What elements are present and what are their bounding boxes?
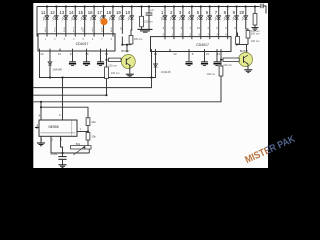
svg-text:10k: 10k xyxy=(91,135,96,139)
svg-text:10 µF: 10 µF xyxy=(50,152,57,156)
svg-text:18: 18 xyxy=(107,10,112,15)
svg-text:12: 12 xyxy=(50,10,55,15)
svg-text:11: 11 xyxy=(41,10,46,15)
svg-text:BC547: BC547 xyxy=(121,49,130,53)
svg-text:14: 14 xyxy=(40,52,44,56)
svg-text:17: 17 xyxy=(97,10,102,15)
svg-text:1N4148: 1N4148 xyxy=(161,70,171,74)
svg-text:CD4017: CD4017 xyxy=(196,43,209,47)
svg-text:BC547: BC547 xyxy=(240,49,249,53)
svg-text:100 om: 100 om xyxy=(134,37,143,41)
svg-text:11: 11 xyxy=(105,52,108,56)
svg-text:16: 16 xyxy=(88,10,93,15)
svg-text:13: 13 xyxy=(59,10,64,15)
svg-text:100 om: 100 om xyxy=(207,72,216,76)
svg-text:2k2: 2k2 xyxy=(91,120,96,124)
svg-text:14: 14 xyxy=(69,10,74,15)
svg-text:1N4148: 1N4148 xyxy=(53,68,63,72)
svg-text:13: 13 xyxy=(58,52,62,56)
svg-text:15: 15 xyxy=(85,52,89,56)
svg-text:CD4017: CD4017 xyxy=(76,42,89,46)
svg-text:50k: 50k xyxy=(76,142,81,146)
svg-text:100 om: 100 om xyxy=(144,20,153,24)
svg-text:20: 20 xyxy=(239,10,244,15)
svg-text:100 om: 100 om xyxy=(108,63,117,67)
svg-text:100 om: 100 om xyxy=(223,63,232,67)
svg-text:NE555: NE555 xyxy=(48,125,58,129)
svg-text:19: 19 xyxy=(116,10,121,15)
svg-text:11: 11 xyxy=(217,52,220,56)
svg-text:15: 15 xyxy=(206,52,210,56)
svg-text:100 om: 100 om xyxy=(251,29,260,33)
svg-text:100 om: 100 om xyxy=(111,71,120,75)
svg-text:1 µF: 1 µF xyxy=(148,8,154,12)
svg-text:10: 10 xyxy=(125,10,130,15)
svg-text:13: 13 xyxy=(173,52,177,56)
svg-text:100 om: 100 om xyxy=(251,39,260,43)
svg-text:15: 15 xyxy=(78,10,83,15)
